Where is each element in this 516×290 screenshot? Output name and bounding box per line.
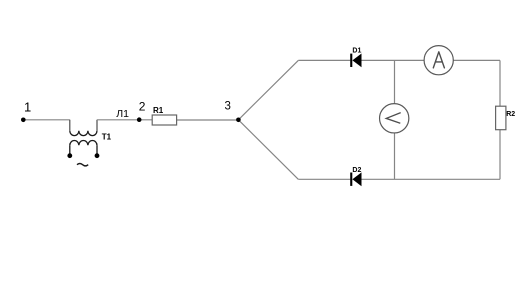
svg-text:R1: R1 — [153, 106, 164, 115]
svg-text:T1: T1 — [102, 133, 112, 142]
svg-text:R2: R2 — [506, 111, 515, 118]
svg-text:D1: D1 — [352, 47, 361, 54]
svg-text:D2: D2 — [352, 167, 361, 174]
svg-text:1: 1 — [24, 99, 31, 114]
svg-text:3: 3 — [225, 101, 231, 113]
svg-text:2: 2 — [139, 100, 146, 114]
svg-text:Л1: Л1 — [116, 108, 129, 120]
